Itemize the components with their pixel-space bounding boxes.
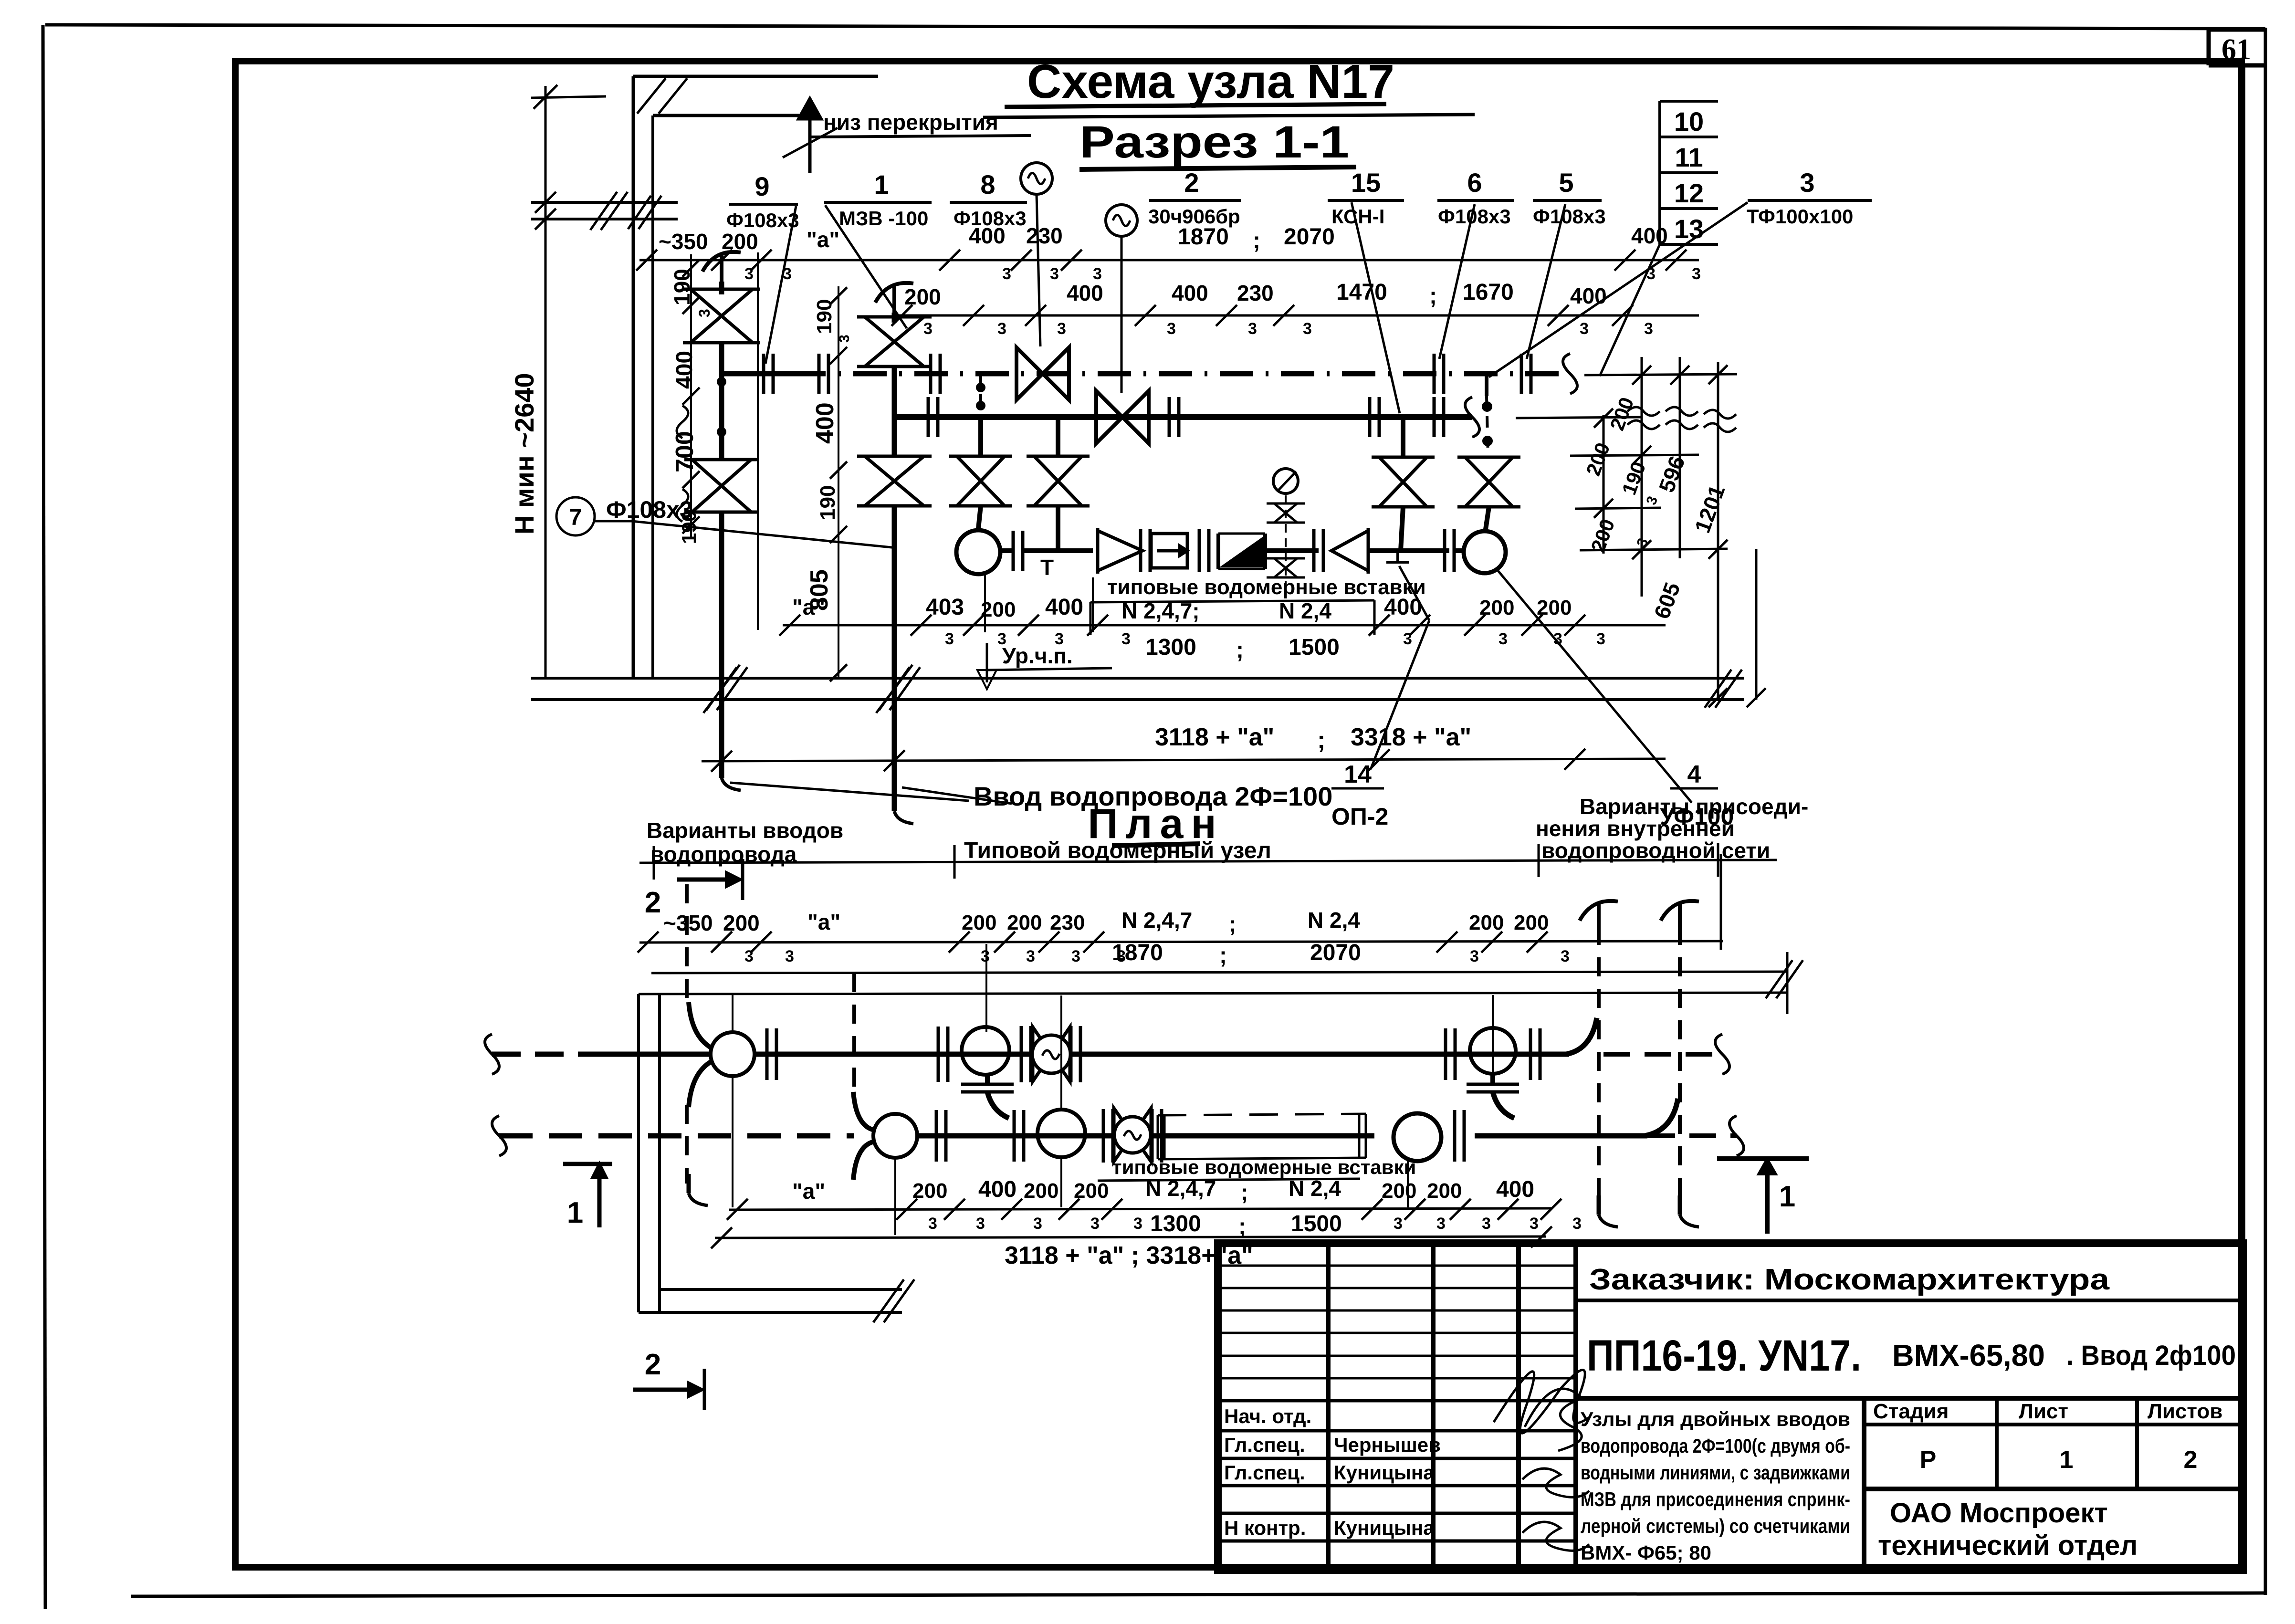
svg-text:N 2,4: N 2,4: [1308, 908, 1360, 932]
svg-text:200: 200: [1537, 596, 1572, 619]
svg-text:700: 700: [671, 431, 699, 472]
svg-text:;: ;: [1236, 638, 1244, 663]
svg-text:Лист: Лист: [2019, 1400, 2068, 1423]
svg-text:3: 3: [1394, 1215, 1403, 1233]
svg-text:400: 400: [1172, 281, 1208, 305]
svg-text:12: 12: [1674, 178, 1704, 208]
svg-text:200: 200: [1382, 1179, 1416, 1203]
svg-text:2070: 2070: [1310, 940, 1361, 965]
svg-text:3: 3: [1403, 630, 1412, 648]
svg-text:15: 15: [1351, 168, 1381, 198]
svg-text:400: 400: [1496, 1177, 1534, 1202]
svg-text:"а": "а": [807, 910, 840, 934]
svg-text:;: ;: [1317, 726, 1325, 754]
svg-text:Ф108х3: Ф108х3: [726, 209, 799, 231]
svg-text:3: 3: [1071, 947, 1080, 965]
svg-text:Гл.спец.: Гл.спец.: [1224, 1434, 1305, 1456]
svg-text:Стадия: Стадия: [1873, 1400, 1949, 1423]
svg-text:3: 3: [997, 320, 1006, 338]
svg-text:Чернышев: Чернышев: [1334, 1434, 1441, 1456]
svg-text:3: 3: [1553, 630, 1562, 648]
svg-text:1500: 1500: [1291, 1211, 1342, 1236]
svg-text:7: 7: [569, 505, 582, 530]
svg-text:2: 2: [2184, 1446, 2198, 1474]
svg-text:13: 13: [1674, 214, 1704, 244]
svg-text:3: 3: [1499, 630, 1508, 648]
svg-text:Куницына: Куницына: [1334, 1461, 1435, 1484]
svg-text:400: 400: [1067, 281, 1103, 305]
svg-text:400: 400: [1570, 283, 1607, 308]
svg-text:1500: 1500: [1289, 635, 1340, 660]
svg-text:МЗВ для присоединения спринк-: МЗВ для присоединения спринк-: [1581, 1488, 1850, 1510]
svg-text:9: 9: [755, 171, 769, 201]
svg-text:КСН-I: КСН-I: [1331, 205, 1384, 228]
svg-text:1: 1: [874, 169, 889, 199]
svg-text:Варианты присоеди-: Варианты присоеди-: [1580, 794, 1808, 819]
svg-text:403: 403: [926, 595, 964, 620]
svg-text:200: 200: [1514, 911, 1549, 934]
svg-text:2: 2: [645, 886, 661, 919]
svg-text:200: 200: [1479, 596, 1514, 619]
svg-text:;: ;: [1219, 943, 1227, 968]
svg-text:1300: 1300: [1150, 1211, 1201, 1236]
svg-text:лерной системы) со счетчиками: лерной системы) со счетчиками: [1581, 1515, 1850, 1537]
svg-text:водными линиями, с задвижками: водными линиями, с задвижками: [1581, 1461, 1850, 1484]
svg-text:. Ввод 2ф100: . Ввод 2ф100: [2066, 1340, 2236, 1371]
svg-text:3: 3: [1050, 265, 1059, 283]
svg-text:Н мин ~2640: Н мин ~2640: [509, 373, 539, 534]
svg-text:N 2,4: N 2,4: [1289, 1176, 1341, 1201]
svg-text:3: 3: [1530, 1215, 1539, 1233]
svg-text:200: 200: [904, 284, 941, 309]
svg-text:~350: ~350: [659, 229, 708, 254]
svg-text:3: 3: [976, 1215, 985, 1233]
svg-text:200: 200: [1007, 911, 1042, 934]
svg-text:Н контр.: Н контр.: [1224, 1517, 1306, 1539]
svg-text:400: 400: [1631, 223, 1668, 248]
svg-text:Листов: Листов: [2148, 1400, 2222, 1423]
svg-text:3: 3: [1033, 1215, 1042, 1233]
svg-text:N 2,4,7: N 2,4,7: [1145, 1176, 1216, 1201]
svg-text:3: 3: [1248, 320, 1257, 338]
svg-text:Нач. отд.: Нач. отд.: [1224, 1405, 1311, 1427]
svg-text:N 2,4,7;: N 2,4,7;: [1121, 598, 1200, 623]
svg-text:Схема узла N17: Схема узла N17: [1027, 55, 1394, 108]
svg-text:11: 11: [1675, 142, 1703, 172]
svg-text:3: 3: [785, 947, 794, 965]
svg-text:200: 200: [1427, 1179, 1462, 1203]
svg-text:;: ;: [1229, 912, 1236, 936]
svg-text:Р: Р: [1920, 1446, 1937, 1474]
svg-text:1300: 1300: [1145, 635, 1196, 660]
svg-text:200: 200: [722, 229, 758, 254]
svg-text:3: 3: [696, 309, 713, 317]
svg-text:ПП16-19. УN17.: ПП16-19. УN17.: [1587, 1331, 1861, 1380]
svg-text:3: 3: [1090, 1215, 1100, 1233]
svg-text:3118 + "а": 3118 + "а": [1155, 723, 1274, 751]
svg-text:;: ;: [1241, 1180, 1248, 1205]
svg-text:3: 3: [1303, 320, 1312, 338]
svg-text:3: 3: [1470, 947, 1479, 965]
svg-text:400: 400: [672, 351, 697, 389]
svg-text:200: 200: [1469, 911, 1504, 934]
svg-text:;: ;: [1429, 283, 1437, 309]
svg-text:3: 3: [1026, 947, 1035, 965]
svg-text:400: 400: [1045, 595, 1083, 620]
svg-text:3: 3: [1561, 947, 1570, 965]
svg-text:3: 3: [1057, 320, 1066, 338]
svg-text:"а": "а": [807, 227, 839, 252]
svg-text:3: 3: [1572, 1215, 1582, 1233]
svg-text:230: 230: [1050, 911, 1085, 934]
svg-text:типовые водомерные вставки: типовые водомерные вставки: [1112, 1156, 1416, 1178]
svg-text:1: 1: [567, 1196, 583, 1229]
svg-text:3: 3: [744, 947, 754, 965]
svg-text:4: 4: [1687, 761, 1701, 788]
svg-text:3: 3: [1436, 1215, 1446, 1233]
svg-text:ОП-2: ОП-2: [1331, 803, 1388, 830]
svg-text:МЗВ -100: МЗВ -100: [839, 207, 928, 230]
svg-text:400: 400: [811, 402, 839, 444]
svg-text:3: 3: [1596, 630, 1605, 648]
svg-text:3: 3: [1002, 265, 1011, 283]
svg-text:3: 3: [945, 630, 954, 648]
svg-text:1670: 1670: [1463, 280, 1514, 305]
svg-text:N 2,4,7: N 2,4,7: [1121, 908, 1192, 932]
svg-text:;: ;: [1253, 228, 1260, 253]
svg-text:230: 230: [1237, 281, 1274, 305]
svg-text:3: 3: [744, 265, 754, 283]
svg-text:3318 + "а": 3318 + "а": [1351, 723, 1471, 751]
svg-text:1870: 1870: [1178, 224, 1229, 250]
svg-text:3: 3: [928, 1215, 937, 1233]
svg-text:Разрез 1-1: Разрез 1-1: [1079, 117, 1349, 168]
svg-text:N 2,4: N 2,4: [1279, 598, 1331, 623]
svg-text:"а": "а": [792, 595, 825, 619]
svg-text:3: 3: [783, 265, 792, 283]
svg-text:3: 3: [1646, 265, 1656, 283]
svg-text:ОАО Моспроект: ОАО Моспроект: [1890, 1498, 2108, 1529]
svg-text:Ур.ч.п.: Ур.ч.п.: [1002, 643, 1073, 668]
svg-text:3: 3: [1133, 1215, 1142, 1233]
svg-text:ТФ100х100: ТФ100х100: [1747, 205, 1853, 228]
svg-text:нения внутренней: нения внутренней: [1536, 816, 1735, 841]
svg-text:технический отдел: технический отдел: [1878, 1530, 2138, 1561]
svg-text:Т: Т: [1040, 555, 1054, 580]
svg-text:2070: 2070: [1284, 224, 1335, 250]
svg-text:1: 1: [1779, 1180, 1795, 1213]
svg-text:типовые водомерные вставки: типовые водомерные вставки: [1107, 576, 1426, 599]
svg-text:2: 2: [1184, 168, 1199, 198]
svg-text:3: 3: [981, 947, 990, 965]
svg-text:водопровода 2Ф=100(с двумя об-: водопровода 2Ф=100(с двумя об-: [1581, 1435, 1850, 1457]
svg-text:190: 190: [816, 485, 839, 520]
svg-text:190: 190: [813, 299, 836, 334]
svg-text:230: 230: [1026, 223, 1063, 248]
svg-text:1: 1: [2060, 1446, 2074, 1474]
svg-text:6: 6: [1467, 168, 1482, 198]
svg-text:ВМХ- Ф65; 80: ВМХ- Ф65; 80: [1581, 1541, 1711, 1564]
svg-text:1870: 1870: [1112, 940, 1163, 965]
svg-text:3: 3: [1800, 168, 1814, 198]
svg-text:3: 3: [1121, 630, 1131, 648]
svg-text:3: 3: [1692, 265, 1701, 283]
svg-text:Заказчик: Москомархитектура: Заказчик: Москомархитектура: [1589, 1263, 2110, 1296]
svg-text:200: 200: [723, 911, 760, 935]
svg-text:5: 5: [1559, 168, 1573, 198]
svg-text:Куницына: Куницына: [1334, 1517, 1435, 1539]
svg-text:14: 14: [1344, 761, 1372, 788]
svg-text:400: 400: [978, 1177, 1017, 1202]
svg-text:2: 2: [645, 1348, 661, 1381]
svg-text:низ перекрытия: низ перекрытия: [823, 110, 998, 135]
svg-text:3: 3: [923, 320, 933, 338]
svg-text:10: 10: [1674, 106, 1704, 136]
svg-text:200: 200: [1074, 1179, 1109, 1203]
svg-text:Варианты вводов: Варианты вводов: [647, 818, 843, 843]
svg-text:3: 3: [1644, 320, 1653, 338]
svg-text:200: 200: [912, 1179, 947, 1203]
svg-text:3: 3: [1482, 1215, 1491, 1233]
svg-text:Узлы для двойных вводов: Узлы для двойных вводов: [1581, 1408, 1850, 1430]
svg-text:200: 200: [981, 598, 1016, 621]
svg-text:1470: 1470: [1336, 280, 1387, 305]
svg-text:"а": "а": [792, 1179, 825, 1204]
svg-text:;: ;: [1238, 1214, 1246, 1239]
svg-text:ВМХ-65,80: ВМХ-65,80: [1892, 1338, 2045, 1373]
svg-text:Типовой водомерный узел: Типовой водомерный узел: [964, 838, 1271, 863]
svg-text:Ф108х3: Ф108х3: [1533, 205, 1606, 228]
svg-text:Гл.спец.: Гл.спец.: [1224, 1461, 1305, 1484]
svg-text:200: 200: [962, 911, 996, 934]
svg-text:8: 8: [980, 169, 995, 199]
svg-text:Ф108х3: Ф108х3: [606, 496, 693, 523]
svg-text:3: 3: [1580, 320, 1589, 338]
svg-text:200: 200: [1024, 1179, 1058, 1203]
svg-text:3: 3: [1167, 320, 1176, 338]
svg-text:400: 400: [969, 223, 1006, 248]
